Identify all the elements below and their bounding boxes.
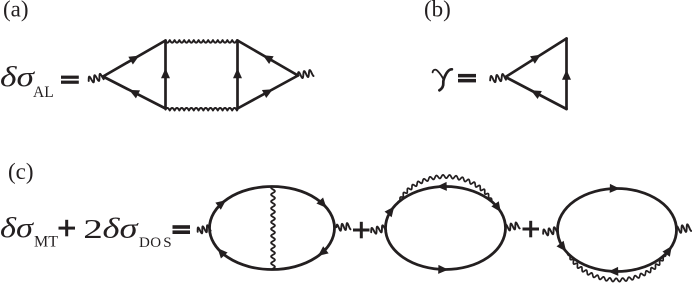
wire: left vertical Green function line (a) [164,41,167,109]
svg-text:L: L [44,84,53,101]
equals sign (b) [458,74,476,83]
wire: vertical Green function line (b) [565,39,568,110]
arrow on second DOS loop lower-left, pointing down-right [557,241,567,252]
photon stub left of first DOS bubble [371,225,386,233]
svg-text:δσ: δσ [103,213,140,245]
coefficient 2 [83,215,103,245]
wavy fluctuation propagator arcing over top of first DOS bubble [398,175,494,203]
arrow on first DOS loop upper-left, pointing up-right [385,207,395,218]
label delta-sigma-MT [0,212,58,251]
arrow on first DOS loop upper-right, pointing down-right [491,201,500,212]
label gamma (Computer Modern style, drawn) [433,69,452,90]
wire: top-right corner to right vertex (a) [238,41,299,76]
arrow on lower-left diagonal (a), pointing to vertex [129,90,140,99]
arrow up on vertical (b) [562,70,571,80]
arrow on upper-left diagonal (a), pointing to corner [128,56,139,65]
arrow on second DOS loop bottom, pointing left [608,267,618,276]
wire: vertex to top corner (b) [506,39,567,78]
svg-text:δσ: δσ [0,212,35,244]
MT bubble fermion loop (ellipse) [210,187,335,270]
plus sign between MT and first DOS bubble [353,222,370,239]
svg-text:2: 2 [83,215,103,245]
wavy fluctuation propagator arcing under bottom of second DOS bubble [567,253,667,282]
svg-text:O: O [150,235,161,251]
equals sign (a) [61,76,79,84]
arrow on MT loop lower-right, pointing down-left [318,246,329,256]
svg-text:S: S [163,235,171,251]
plus sign between DOS bubbles [523,221,540,238]
arrow on lower diagonal (b), pointing to vertex [531,90,542,99]
photon stub right of (a) vertex [298,70,314,78]
svg-text:δσ: δσ [0,61,36,93]
first DOS bubble fermion loop (ellipse) [386,187,506,270]
second DOS bubble fermion loop (ellipse) [558,189,677,272]
arrow on first DOS loop bottom, pointing right [438,265,448,274]
arrow on second DOS loop lower-right, pointing up-right [662,246,671,257]
arrow up on right vertical (a) [233,68,242,78]
svg-text:(c): (c) [8,159,34,184]
arrow on MT loop upper-right, pointing down-right [316,197,326,207]
arrow on MT loop upper-left, pointing up-right [215,200,226,210]
svg-text:D: D [139,235,150,251]
svg-text:MT: MT [34,234,58,251]
arrow on lower-right diagonal (a), pointing to vertex [262,89,273,98]
arrow on upper diagonal (b) [530,55,541,64]
wavy fluctuation propagator, bottom (a) [166,108,238,111]
svg-text:(b): (b) [424,0,451,21]
wire: vertex to bottom corner (b) [506,77,567,109]
arrow on upper-right diagonal (a), pointing to corner [263,55,274,64]
photon stub right of second DOS bubble [676,224,691,232]
wire: left vertex to bottom-left corner (a) [103,77,166,109]
photon stub left of MT bubble [198,225,211,233]
photon stub right of MT bubble [336,223,350,231]
arrow on MT loop lower-left, pointing up-left [218,248,228,258]
plus sign in formula [59,220,76,237]
arrow up on left vertical (a) [161,68,170,78]
vertical wavy fluctuation propagator inside MT bubble [271,187,275,270]
svg-text:A: A [33,84,45,101]
wire: bottom-right corner to right vertex (a) [238,76,299,109]
photon stub left of second DOS bubble [543,227,557,235]
wire: right vertical Green function line (a) [236,41,239,109]
arrow on first DOS loop top, pointing left [437,182,447,191]
equals sign (c) [173,225,191,234]
photon stub left of (a) vertex [89,74,104,82]
svg-text:(a): (a) [3,0,29,21]
photon stub right of first DOS bubble [505,223,519,231]
wavy fluctuation propagator, top (a) [166,40,238,43]
label delta-sigma-DOS [103,213,172,252]
photon stub of gamma vertex (b) [490,74,506,82]
arrow on second DOS loop top, pointing right [610,184,620,193]
wire: left vertex to top-left corner (a) [103,41,166,77]
label delta-sigma-AL [0,61,54,101]
